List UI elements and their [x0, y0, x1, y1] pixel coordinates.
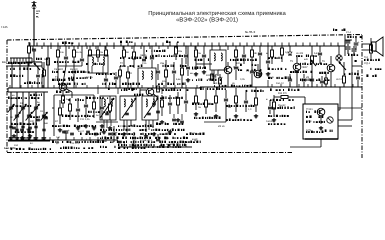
svg-text:25Б: 25Б [160, 62, 165, 65]
ann rf h [62, 114, 63, 117]
resistor R25 [255, 98, 258, 105]
ann rf a [54, 61, 56, 63]
ground C5g [28, 136, 30, 138]
svg-text:Гр1: Гр1 [364, 56, 369, 59]
grounds right of cans [161, 120, 163, 122]
capacitor C8 [65, 50, 67, 56]
ann top a [62, 42, 64, 44]
ann top c [166, 41, 168, 44]
under-rail stubs [97, 88, 99, 94]
wire down x310 [311, 72, 313, 87]
electrolytic C14 [64, 130, 69, 132]
row caps above mid rail [302, 78, 306, 80]
wires to mid rail IF [227, 74, 229, 87]
rail87 right ticks [271, 84, 273, 87]
extra h-link rf3 [52, 107, 54, 109]
ann af g [270, 99, 272, 101]
IF can 1 shield [120, 96, 136, 120]
capacitor C29 [268, 106, 272, 108]
ann rf f [63, 99, 64, 101]
ann if h [226, 105, 228, 107]
top supply rail [27, 45, 345, 47]
bottom band extra caps [62, 130, 66, 132]
driver block box [303, 104, 338, 139]
IF can2 coil a [146, 99, 147, 107]
electro labels [347, 36, 349, 38]
extra h-link rf2 [54, 94, 94, 96]
link top of gang [8, 91, 48, 93]
ann mx h [156, 122, 158, 125]
transistor T5 [293, 63, 301, 71]
electro cluster right 1 [346, 46, 351, 48]
svg-text:Жi: Жi [254, 52, 257, 55]
IF rail drop x236 [235, 46, 237, 50]
capacitor C9 [81, 50, 83, 58]
band switch contacts B1 [33, 56, 35, 62]
right margin speaker label [370, 68, 371, 70]
IF can 2 shield [142, 96, 158, 120]
ann af k [306, 111, 307, 113]
ann af a [268, 57, 270, 59]
resistor R12 [133, 52, 136, 59]
ann af j [268, 123, 270, 125]
grounds under cans [123, 132, 125, 134]
tuning capacitor C7 [42, 114, 46, 116]
bottom ground rail left block [8, 139, 118, 141]
IF can 0 shield [100, 96, 116, 120]
top right vertical [344, 35, 346, 46]
trimmer C5t [27, 128, 30, 130]
extra res mx2 [127, 72, 130, 78]
bottom rail tuner [8, 140, 50, 142]
chassis dash-dot border bottom [7, 152, 292, 154]
ann mx k [118, 147, 120, 149]
ann if k [186, 133, 188, 135]
svg-text:R14: R14 [162, 80, 167, 83]
resistor R21 [195, 96, 198, 103]
ann af p [333, 29, 334, 32]
ann af o [344, 73, 345, 75]
svg-text:С14 10,0: С14 10,0 [70, 142, 80, 145]
wire under block [320, 139, 322, 147]
pot R32 right [343, 76, 346, 83]
T3 base wire [218, 69, 225, 71]
mixer extra cap2 [186, 66, 190, 68]
capacitor C11 [76, 108, 80, 110]
IF can0 gnd [103, 130, 105, 132]
resistor R18 [195, 50, 198, 57]
transistor T6 [327, 64, 335, 72]
svg-text:ГТ403: ГТ403 [306, 108, 313, 111]
IF can1 cap [125, 112, 129, 114]
wire down T6 [330, 72, 332, 87]
mid rail extra ticks [9, 85, 11, 88]
grounds lower RF [59, 128, 61, 130]
speaker wires [362, 43, 373, 45]
lower left extra caps [36, 118, 40, 120]
extra grounds bottom [13, 134, 15, 136]
IF can0 wires [103, 120, 105, 128]
resistor R1 [28, 46, 31, 53]
bottom text band rows [100, 129, 102, 131]
svg-text:С11 0,05: С11 0,05 [80, 118, 90, 121]
ann mx e [158, 83, 160, 85]
wire AGC [225, 110, 227, 122]
svg-text:жз т2: жз т2 [78, 130, 84, 133]
mid band cap [104, 78, 108, 80]
IF rail drop x228 [227, 46, 229, 50]
IF can1 coil b [131, 99, 132, 107]
chassis dash-dot border top [7, 35, 362, 41]
ann af d [268, 77, 270, 79]
mid band text d [56, 90, 58, 93]
ann tuner i [30, 94, 32, 96]
resistor R31 [273, 102, 276, 109]
ann mx j [140, 141, 141, 143]
wire drop x124 [123, 46, 125, 50]
svg-text:Г.125: Г.125 [1, 25, 8, 29]
capacitor C26 [319, 46, 321, 52]
IF rail drop x220 [219, 46, 221, 50]
switch label V1b [9, 68, 12, 70]
IF can0 cap [105, 112, 109, 114]
ann if c [192, 67, 193, 69]
svg-text:1Д: 1Д [285, 51, 288, 54]
IF can2 coil b [153, 99, 154, 107]
resistor R41 [89, 50, 92, 56]
resistor R14 [165, 70, 168, 77]
af extra res [325, 78, 328, 84]
switch comb wires down [11, 63, 13, 88]
ground C7g [43, 136, 45, 138]
wire left edge [12, 65, 26, 67]
cap right col [356, 76, 360, 78]
ann if e [191, 79, 194, 81]
volume pot R28 [311, 56, 314, 63]
ground C3g [16, 136, 18, 138]
chassis dash-dot border left [6, 40, 8, 152]
capacitor C17 [172, 70, 176, 72]
ann tuner b [36, 58, 37, 60]
electrolytic C27 plus [344, 40, 346, 46]
transistor T2 [146, 88, 154, 96]
transistor T7 [317, 108, 325, 116]
left edge tick [6, 65, 12, 67]
af text rows 2 [290, 71, 292, 73]
resistor R4 [97, 50, 100, 57]
svg-text:2об: 2об [14, 144, 19, 147]
ann af h [272, 107, 274, 109]
osc extra res [157, 86, 160, 92]
resistor R3 [73, 50, 76, 57]
capacitor C21 [203, 50, 205, 54]
T2 leads [140, 89, 146, 91]
svg-text:1об-Б2: 1об-Б2 [266, 120, 274, 123]
ann mx f [121, 89, 122, 91]
ann if l [186, 141, 187, 143]
chassis dash-dot border right [361, 35, 363, 158]
wire box lower right [338, 125, 352, 127]
IF can3 coil a [214, 53, 215, 61]
junction row mid [119, 87, 120, 88]
resistor R17 [177, 98, 180, 105]
trimmer C4t [21, 125, 24, 127]
tuning capacitor C5 [27, 114, 31, 116]
coil L5 [142, 71, 143, 79]
IF rail drop x260 [259, 46, 261, 50]
IF can0 coil b [111, 99, 112, 107]
ann if f [214, 85, 215, 87]
resistor R30 horizontal [281, 96, 288, 99]
svg-text:об 12: об 12 [336, 78, 343, 81]
ann mx c [120, 65, 121, 67]
wire right col2 [344, 46, 346, 56]
IF can3 coil b [221, 53, 222, 61]
resistor R29 outside [370, 45, 373, 53]
capacitor C25 [244, 100, 248, 102]
ann tuner h [11, 148, 13, 150]
mid band text a [58, 83, 60, 85]
svg-text:ЛБ57: ЛБ57 [302, 66, 308, 69]
wire antenna to switch [33, 51, 35, 58]
transistor T1 [59, 83, 67, 91]
rail drop wire x66 [65, 46, 67, 50]
ann af i [268, 115, 270, 117]
trimmer C6t [34, 125, 37, 127]
electrolytic C28 [354, 42, 359, 44]
IF rail drop x252 [251, 46, 253, 50]
ann af c [300, 63, 301, 65]
ann mx n [147, 146, 150, 148]
diode D1 cluster [289, 46, 291, 52]
can wires [91, 66, 93, 73]
wire block to speaker [338, 119, 352, 121]
box inner circle T8 [327, 117, 333, 123]
bottom band extra text [60, 147, 62, 149]
mixer extra text [146, 50, 147, 52]
band switch contact comb [10, 57, 32, 59]
wire down from T5 [296, 71, 298, 87]
mixer extra gnd [187, 78, 189, 80]
wires under cans [123, 120, 125, 130]
rail drop wire x74 [73, 46, 75, 50]
wire right edge h [352, 65, 362, 67]
resistor R15 [181, 68, 184, 75]
extra caps bottom left [12, 126, 16, 128]
resistor R13 [175, 47, 178, 54]
coil L2 [92, 57, 93, 65]
bottom of block thick [305, 138, 338, 140]
ground audio [273, 118, 275, 120]
rail drop wire x98 [97, 46, 99, 50]
rail drop wire x82 [81, 46, 83, 50]
ann mx d [163, 65, 164, 67]
transistor T4 [254, 70, 262, 78]
extra v-wire x48 [47, 46, 49, 88]
mid band text c [122, 83, 124, 85]
mid band cap2 [114, 76, 118, 78]
wire drop x134 [133, 46, 135, 52]
ann af q [348, 54, 349, 57]
wire column C6 [35, 92, 37, 136]
IF can1 coil a [124, 99, 125, 107]
svg-text:R30 270: R30 270 [278, 92, 287, 95]
IF rail drop x196 [195, 46, 197, 50]
wire column C3 [16, 92, 18, 136]
extra cap left [36, 74, 40, 76]
ann mx g [118, 125, 119, 127]
resistor R2 [57, 50, 60, 57]
ann af e [300, 79, 301, 81]
ann mx a [120, 57, 121, 59]
ann if d [238, 69, 239, 71]
ann top b [120, 41, 122, 43]
coil L3 [103, 57, 104, 65]
ann if b [230, 59, 231, 61]
rail connection ticks [29, 43, 31, 47]
if extra electro [212, 74, 217, 76]
svg-text:жБ: жБ [96, 72, 100, 75]
rail drop wire x106 [105, 46, 107, 50]
wire right col [351, 56, 353, 87]
capacitor C18 [168, 102, 172, 104]
tuning capacitor C3 [15, 114, 19, 116]
wires into block [298, 96, 305, 98]
ann mx l [160, 97, 162, 99]
ann mx b [149, 55, 152, 57]
ann if g [192, 103, 194, 106]
ann tuner a [8, 62, 10, 64]
resistor R22 [205, 100, 208, 107]
input coupling cap C1 [32, 48, 36, 50]
svg-text:№ Л5-Э: № Л5-Э [245, 30, 255, 34]
can tuning arrows [100, 98, 114, 118]
tuning capacitor C4 [21, 106, 25, 108]
capacitor C15 [150, 56, 154, 58]
trimmer C3t [15, 128, 18, 130]
if extra res2 [219, 78, 222, 84]
ann rf g [86, 97, 88, 99]
mid rail ticks [59, 87, 60, 88]
IF mid components [235, 62, 237, 66]
mid rail [8, 87, 200, 89]
box extra text [306, 116, 308, 118]
if text extra [200, 88, 202, 91]
svg-text:100: 100 [236, 62, 241, 65]
coil L6 [151, 71, 152, 79]
extra h-link rf1 [58, 65, 82, 67]
resistor R20 [251, 50, 254, 57]
mixer extra cap1 [142, 58, 146, 60]
wire column C5 [28, 92, 30, 136]
resistor R42 [105, 50, 108, 56]
resistor R8 [69, 104, 72, 111]
svg-text:9Т-4: 9Т-4 [346, 31, 352, 34]
ground C6g [35, 136, 37, 138]
extra res mx [119, 70, 122, 76]
collector wire T1 [67, 89, 73, 92]
wire box right to border [338, 107, 362, 109]
resistor R19 [235, 50, 238, 57]
svg-text:жз: жз [12, 94, 15, 97]
transistor T3 [224, 66, 232, 74]
ann rf e [52, 79, 54, 81]
resistor R27 [281, 48, 284, 55]
resistor R23 [215, 96, 218, 103]
ann af n [364, 59, 366, 61]
IF rail drop x244 [243, 46, 245, 50]
mid band text b [102, 83, 103, 85]
resistor R9 [93, 102, 96, 109]
resistor R43 [211, 74, 214, 80]
svg-text:ж| 4Д нб α: ж| 4Д нб α [140, 139, 153, 142]
ann if m [246, 90, 247, 92]
lower mid extra wires [153, 96, 155, 102]
ann rf l [52, 141, 54, 143]
svg-text:об 425: об 425 [296, 52, 304, 55]
IF can 3 shield [210, 50, 226, 70]
resistor R7 [59, 108, 62, 115]
coil can L5 shield [138, 68, 156, 88]
speaker Gr1 [372, 42, 377, 51]
ann tuner f [30, 116, 32, 119]
wire column C7 [43, 92, 45, 136]
ann rf i [88, 111, 90, 113]
ann rf n [96, 73, 97, 75]
electrolytic C20 [112, 132, 117, 134]
can bottom wires [106, 120, 108, 128]
rail drop wire x90 [89, 46, 91, 50]
capacitor C22 [243, 50, 245, 54]
ann if j [226, 119, 228, 121]
svg-text:В1а: В1а [2, 61, 7, 64]
wire bus lower RF [53, 95, 55, 136]
svg-text:2об 4,2: 2об 4,2 [276, 82, 284, 85]
af extra caps row [288, 78, 292, 80]
extra small caps bottom mid [108, 132, 112, 134]
bottom rail mid [118, 146, 192, 148]
coil L1 [42, 68, 44, 77]
resistor R24 [235, 96, 238, 103]
wire column C4 [22, 92, 24, 136]
extra wire mixer v [187, 46, 189, 64]
ann rf m [110, 141, 112, 143]
mid rail dots [97, 87, 98, 88]
trimmer C7t [42, 128, 45, 130]
ann rf o [108, 88, 110, 90]
capacitor C24 [224, 98, 228, 100]
extra resistor R40 [47, 58, 50, 65]
ann af m [306, 131, 307, 133]
capacitor C23 [259, 50, 261, 52]
svg-text:ж-Б: ж-Б [304, 58, 308, 61]
ground C4g [22, 136, 24, 138]
ann rf c [52, 71, 53, 73]
ann tuner c [8, 97, 10, 100]
extra h-link mx [120, 95, 140, 97]
svg-text:«ВЭФ-202» (ВЭФ-201): «ВЭФ-202» (ВЭФ-201) [176, 17, 238, 24]
extra cap if [266, 60, 270, 62]
lower mid extra caps [152, 102, 156, 104]
extra wire if v [267, 46, 269, 60]
pot arrow right [339, 62, 346, 70]
extra grounds bottom mid [153, 132, 155, 134]
ann rf j [52, 125, 54, 127]
rail drop wire x58 [57, 46, 59, 50]
IF can2 cap [147, 112, 151, 114]
extra res left [43, 70, 46, 76]
ann tuner d [12, 105, 14, 107]
